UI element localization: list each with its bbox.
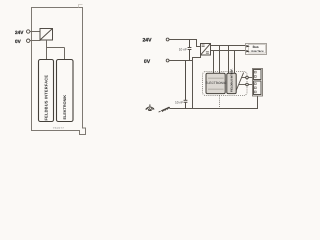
svg-text:FELDBUS INTERFACE: FELDBUS INTERFACE [44, 75, 49, 121]
svg-text:0V: 0V [15, 39, 22, 44]
dotted earth connection from module [219, 96, 221, 109]
isolation diagonal [236, 73, 243, 91]
svg-text:10 nF: 10 nF [179, 47, 187, 51]
terminal circle 24V (left) [27, 30, 30, 33]
DC bars lower-right [206, 52, 209, 53]
svg-text:Bus: Bus [253, 45, 259, 49]
block ELEKTRONIK (left) [57, 60, 74, 122]
wire terminals to connector [248, 77, 252, 79]
capacitor C1 10nF (between 24V and 0V) [188, 40, 192, 61]
terminal 0V (right) [166, 59, 169, 62]
terminal lower [246, 83, 249, 86]
block ELECTRONIC (right) [205, 73, 227, 93]
fieldbus connector [253, 69, 263, 97]
arrow upper [246, 45, 249, 47]
stub to upper terminal [242, 77, 246, 79]
block FIELDBUS INTERFACE (left) [39, 60, 54, 122]
top tab [79, 5, 83, 8]
earth symbol [146, 104, 155, 110]
capacitor C2 10nF (0V to earth) [184, 61, 188, 110]
svg-text:10 nF: 10 nF [175, 101, 183, 105]
terminal upper [246, 76, 249, 79]
wire upper output to bus interface [211, 46, 246, 74]
wire lower output to bus interface [211, 51, 246, 74]
wire 0V rail to converter bottom [169, 55, 200, 61]
svg-text:0V: 0V [144, 59, 151, 65]
svg-text:24V: 24V [142, 38, 152, 44]
DC/DC converter square (left) [40, 29, 53, 41]
svg-text:interface: interface [251, 50, 264, 53]
pins [254, 71, 256, 93]
svg-text:24V: 24V [15, 30, 24, 35]
block FIELDBUS INTERFACE (right) [227, 68, 236, 93]
terminal 24V (right) [166, 38, 169, 41]
shield rail [169, 108, 258, 110]
DC bars upper-left [202, 45, 205, 46]
coupler outline (left block diagram) [32, 8, 86, 135]
svg-text:750577: 750577 [53, 126, 65, 130]
electronics module dashed outline [203, 72, 248, 96]
wire 24V rail with step to converter [169, 40, 200, 47]
wire connector shield down [257, 96, 259, 109]
svg-text:ELEKTRONIK: ELEKTRONIK [63, 95, 67, 120]
svg-text:FIELDBUS INTERF.: FIELDBUS INTERF. [230, 68, 233, 92]
bus interface box [246, 44, 267, 55]
arrow lower [246, 50, 249, 52]
wire 0V to converter (left) [30, 40, 41, 42]
terminal circle 0V (left) [27, 39, 30, 42]
DC/DC converter square (right) [201, 44, 211, 56]
wire converter to blocks (left) [47, 40, 65, 60]
wire 24V to converter (left) [30, 31, 40, 33]
stub to lower terminal [239, 84, 246, 86]
wire 0V down to shield rail [192, 61, 194, 110]
chassis symbol [159, 107, 170, 112]
svg-text:ELECTRONIC: ELECTRONIC [205, 81, 227, 85]
